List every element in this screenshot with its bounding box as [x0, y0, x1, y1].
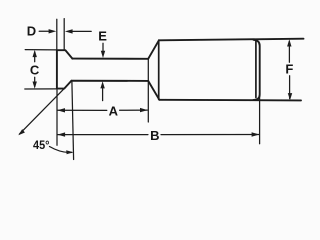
E arrow shaft top — [102, 43, 104, 51]
arrowheads — [18, 29, 292, 154]
F bottom arrowhead — [288, 93, 292, 100]
45 deg slant arrowhead — [18, 129, 25, 135]
F dimension line lower — [289, 76, 291, 99]
C top extension line — [25, 49, 56, 51]
F dimension line upper — [288, 42, 290, 63]
D right arrowhead — [65, 29, 73, 33]
C bottom arrowhead — [33, 82, 37, 89]
right end edge line — [255, 42, 257, 98]
C dimension line lower — [34, 77, 36, 86]
45 deg arc arrowhead — [66, 150, 73, 154]
B right arrowhead — [252, 132, 260, 136]
A dimension line right part — [120, 109, 148, 111]
A dimension line left part — [58, 109, 107, 111]
body chamfer bottom — [148, 81, 159, 100]
svg-text:F: F — [285, 62, 293, 77]
B dimension line right part — [161, 134, 259, 136]
svg-text:D: D — [27, 23, 36, 38]
chamfer tangent edge line — [158, 41, 160, 100]
C dimension line upper — [34, 52, 36, 62]
F top arrowhead — [287, 39, 291, 46]
B dimension line left part — [58, 134, 148, 136]
body top line + F top extension — [159, 39, 304, 41]
svg-text:45°: 45° — [33, 138, 50, 152]
45 deg slant line (cone edge extension) — [20, 89, 65, 134]
D left arrowhead — [49, 29, 57, 33]
A left arrowhead — [57, 108, 65, 112]
45 deg leader arc — [50, 147, 72, 153]
svg-text:B: B — [150, 128, 159, 143]
extension line below body start — [147, 60, 149, 123]
A right arrowhead — [140, 108, 148, 112]
part outline group — [57, 39, 304, 101]
body bottom line + F bottom extension — [159, 99, 301, 102]
D extension line left — [56, 19, 58, 50]
shank bottom line — [71, 80, 148, 82]
body right face (rounded corners) — [254, 40, 260, 100]
B left arrowhead — [57, 132, 65, 136]
E top arrowhead — [101, 51, 105, 58]
dimension line work — [20, 19, 290, 160]
svg-text:E: E — [98, 29, 107, 44]
extension line below shank junction — [72, 82, 74, 160]
E bottom arrowhead — [100, 81, 104, 88]
body chamfer top — [148, 40, 159, 59]
svg-text:A: A — [109, 104, 119, 119]
extension line below body right face — [259, 95, 261, 144]
D right arrow line — [72, 30, 91, 32]
head (countersunk, flat face left) — [57, 50, 73, 88]
extension line below head face — [56, 90, 58, 145]
svg-text:C: C — [30, 62, 40, 77]
C top arrowhead — [33, 50, 37, 57]
shank top line — [72, 58, 148, 60]
D left arrow line — [39, 30, 49, 32]
E arrow shaft bottom — [102, 88, 104, 101]
D extension line right — [63, 19, 65, 50]
C bottom extension line — [25, 88, 57, 90]
